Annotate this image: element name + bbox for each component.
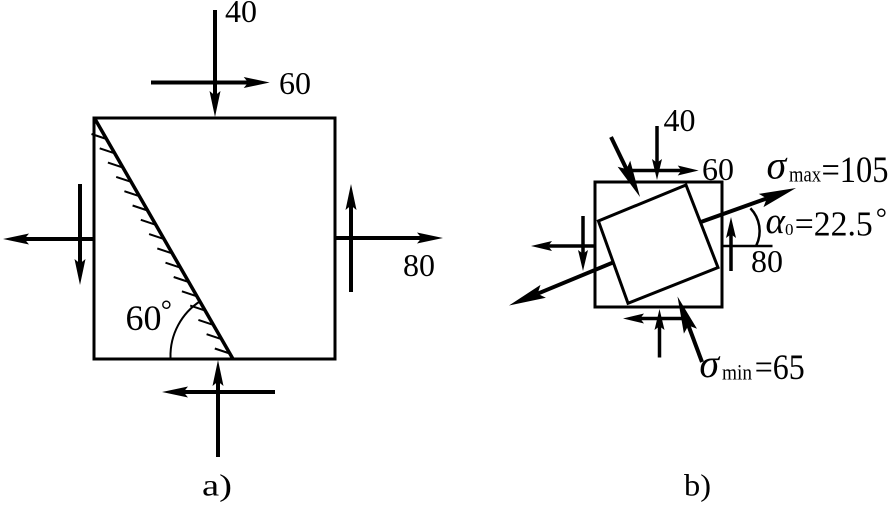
svg-text:60: 60	[279, 65, 311, 101]
svg-text:min: min	[722, 360, 752, 385]
svg-text:σ: σ	[767, 143, 788, 188]
svg-text:b): b)	[684, 468, 711, 503]
svg-text:=65: =65	[755, 347, 805, 387]
svg-text:80: 80	[403, 247, 435, 283]
svg-text:80: 80	[751, 243, 783, 279]
svg-text:σ: σ	[699, 341, 720, 386]
svg-text:0: 0	[785, 220, 794, 239]
svg-text:60: 60	[126, 298, 162, 338]
svg-text:a): a)	[202, 468, 232, 503]
svg-text:40: 40	[225, 0, 257, 29]
svg-text:α: α	[766, 201, 787, 242]
svg-text:40: 40	[664, 102, 696, 138]
svg-text:max: max	[789, 162, 821, 187]
svg-text:=22.5: =22.5	[795, 204, 873, 243]
svg-text:°: °	[876, 203, 887, 234]
svg-text:60: 60	[702, 151, 734, 187]
svg-text:=105: =105	[822, 150, 888, 191]
svg-text:°: °	[161, 296, 172, 327]
